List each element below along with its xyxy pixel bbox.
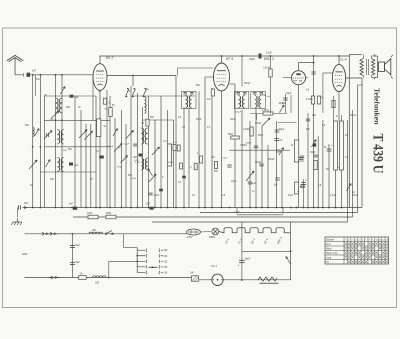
resistor R13 (tall) xyxy=(334,121,338,170)
wire IF link corner xyxy=(177,68,179,76)
svg-text:50pF: 50pF xyxy=(310,152,316,154)
wire vertical x137 xyxy=(137,93,139,208)
wire transformer core a xyxy=(365,59,367,75)
switch band S2 xyxy=(46,160,51,168)
svg-text:200: 200 xyxy=(92,229,97,232)
wire vertical x32 xyxy=(32,75,34,208)
svg-text:4700: 4700 xyxy=(135,162,141,164)
svg-text:5µF: 5µF xyxy=(76,261,81,264)
inductor antenna coil L1 xyxy=(33,128,35,137)
wire CL4 top xyxy=(338,56,340,64)
svg-text:500pF: 500pF xyxy=(244,83,251,85)
wire vertical x235 xyxy=(234,84,236,208)
wire vertical x86 xyxy=(85,124,87,208)
trimmer C17 xyxy=(262,118,270,126)
wire mains rail bottom y277 xyxy=(25,277,192,279)
wire vertical x276 xyxy=(276,121,278,208)
wire vertical x75 xyxy=(74,96,76,208)
wire EF9 grid left xyxy=(205,76,214,78)
capacitor 50uF C24 xyxy=(301,182,306,184)
svg-text:50µF: 50µF xyxy=(279,129,285,131)
capacitor 500pF on det line xyxy=(254,145,258,147)
svg-text:500pF: 500pF xyxy=(268,159,275,161)
switch row band selector xyxy=(126,96,128,98)
wire EF9 right xyxy=(230,83,236,85)
wire mid vertical x241 xyxy=(241,251,243,280)
wire EK2 left electrode down xyxy=(92,77,94,120)
svg-text:0,1µF: 0,1µF xyxy=(298,161,305,163)
wire vertical x199 xyxy=(198,91,200,207)
switch S10 xyxy=(286,257,291,265)
capacitor 3nF C28 xyxy=(18,205,20,209)
wire horizontal y96 xyxy=(45,95,97,97)
wire C24 down xyxy=(303,179,305,208)
wire vertical x313 xyxy=(313,56,315,208)
dial lamp assembly A507 xyxy=(187,229,201,235)
wire antenna bus xyxy=(30,74,93,76)
capacitor C8b xyxy=(69,163,73,166)
capacitor C30 xyxy=(149,207,153,210)
resistor R2b xyxy=(103,98,106,104)
junction dots on main bus xyxy=(32,207,34,209)
resistor R3 xyxy=(146,119,149,126)
svg-text:+: + xyxy=(297,190,299,194)
svg-text:CL 4: CL 4 xyxy=(340,58,347,62)
wire main bus y207 xyxy=(25,207,363,209)
tube EF 9 (IF amplifier) xyxy=(214,63,230,91)
svg-text:5MQ: 5MQ xyxy=(228,134,233,136)
wire vertical x91 xyxy=(90,124,92,208)
wire vertical x322 xyxy=(322,120,324,208)
wire EK2 cathode down xyxy=(99,90,101,207)
switch mains S9 xyxy=(105,233,107,235)
wire EBC3 right stub xyxy=(305,77,307,79)
resistor R det a xyxy=(199,156,202,163)
transformer IF1 can outline xyxy=(182,91,197,108)
svg-text:2nF: 2nF xyxy=(190,273,195,275)
wire transformer primary top xyxy=(362,55,364,59)
antenna xyxy=(7,55,24,60)
wire selector feed xyxy=(123,234,125,248)
svg-text:0,1µF: 0,1µF xyxy=(330,195,337,197)
capacitor on x313 xyxy=(311,71,315,73)
svg-text:0,5MQ: 0,5MQ xyxy=(240,145,247,147)
capacitor 1uF C3 xyxy=(70,95,74,98)
capacitor 1uF AF xyxy=(275,177,279,179)
voltage tap 150V xyxy=(137,260,147,263)
resistor R8 xyxy=(231,136,240,139)
table switch positions xyxy=(325,237,389,264)
transformer oscillator L4/L5 xyxy=(57,130,59,145)
wire vertical x142 xyxy=(142,107,144,208)
wire secondary bottom xyxy=(372,77,378,79)
trimmer osc low xyxy=(149,174,156,182)
wire R9 top xyxy=(270,56,272,69)
transformer IF2 can outline xyxy=(234,91,249,108)
wire lamp link xyxy=(200,231,211,234)
wire vertical x262 xyxy=(261,126,263,208)
wire EBC3 grid left xyxy=(283,77,292,79)
svg-text:1nF: 1nF xyxy=(252,183,257,185)
svg-text:1MQ: 1MQ xyxy=(87,212,92,215)
tube CL 4 (output pentode) xyxy=(332,64,345,91)
svg-text:60W: 60W xyxy=(22,252,28,256)
tube EK 2 (octode mixer) xyxy=(93,64,107,91)
svg-text:T 439 U: T 439 U xyxy=(370,134,386,174)
resistor R4 (tall) xyxy=(167,144,171,166)
switch S6 xyxy=(148,169,153,177)
svg-text:+: + xyxy=(305,178,307,182)
svg-text:1µF: 1µF xyxy=(74,164,79,167)
transformer L6/L7 xyxy=(57,158,59,172)
resistor 0.1M R9 xyxy=(269,69,272,77)
wire drop x176 xyxy=(175,76,177,208)
capacitor C6 xyxy=(99,156,104,159)
svg-text:2nF: 2nF xyxy=(211,157,216,159)
wire EF9 anode to top rail xyxy=(221,56,223,63)
capacitor 10uF xyxy=(283,97,287,99)
svg-text:1nF: 1nF xyxy=(312,115,317,117)
svg-text:2nF: 2nF xyxy=(69,203,74,206)
resistor R12 xyxy=(314,161,317,170)
svg-text:10µF: 10µF xyxy=(286,93,292,95)
switch S3b xyxy=(113,129,118,137)
wire vertical x121 xyxy=(121,110,123,208)
svg-text:5nF: 5nF xyxy=(207,99,212,101)
capacitor C22 xyxy=(248,181,252,183)
capacitor padding C5 xyxy=(46,133,48,137)
wire vertical x189 xyxy=(188,108,190,208)
svg-text:Lang: Lang xyxy=(326,257,332,259)
inductor osc L10a xyxy=(145,97,147,107)
wire horizontal y120 xyxy=(45,119,111,121)
lamp dial M504 xyxy=(212,228,219,235)
svg-text:5nF: 5nF xyxy=(306,129,311,131)
wire right rail x357 xyxy=(357,85,359,213)
svg-text:80pF: 80pF xyxy=(250,58,256,61)
svg-text:5µF: 5µF xyxy=(76,244,81,247)
wire x242 from top rail xyxy=(241,56,243,87)
svg-text:20µF: 20µF xyxy=(231,181,237,183)
svg-text:10nF: 10nF xyxy=(154,194,160,197)
ground chassis xyxy=(11,218,21,225)
wire horizontal y146 xyxy=(45,146,111,148)
wire AVC branch y122 xyxy=(278,122,297,124)
inductor mains filter 200 bottom xyxy=(93,276,107,278)
svg-text:30µF: 30µF xyxy=(245,258,251,261)
transformer IF3 can outline xyxy=(251,91,265,108)
svg-text:Mittel: Mittel xyxy=(326,247,332,250)
svg-text:1µF: 1µF xyxy=(274,185,279,187)
wire secondary top stub xyxy=(371,56,373,59)
wire top rail to output xyxy=(297,55,351,57)
wire right rail x352 xyxy=(352,110,354,217)
wire vertical x115 xyxy=(114,118,116,208)
wire vertical x161 xyxy=(160,96,162,208)
wire mid y251 xyxy=(242,250,291,252)
resistor 1.2k xyxy=(177,145,180,151)
capacitor left a xyxy=(300,155,304,157)
wire EBC3 up xyxy=(298,63,300,71)
resistor R det b xyxy=(214,162,217,169)
capacitor 500pF C21 xyxy=(259,163,263,165)
wire top HT rail mid xyxy=(262,55,297,57)
trimmer arrow C4 xyxy=(44,131,52,140)
capacitor C10c xyxy=(139,154,143,157)
inductor mains filter 200 top xyxy=(89,232,103,234)
trimmer C11 xyxy=(152,147,160,155)
transformer IF3 L17/L18 xyxy=(255,96,257,109)
svg-text:Mittel m.Sp.: Mittel m.Sp. xyxy=(326,252,338,255)
capacitor 50uF C18 xyxy=(275,129,280,131)
resistor heater dropper (with core) xyxy=(258,277,277,281)
wire EK2 grid2 right y75 xyxy=(107,75,176,77)
resistor 0.3M R10 (tall) xyxy=(294,140,298,162)
switch detector xyxy=(279,148,284,156)
trimmer L5 a xyxy=(79,130,87,139)
wire IF link y68 xyxy=(178,67,214,69)
wire detector output y150 xyxy=(229,149,290,151)
wire vertical x44 xyxy=(44,96,46,208)
svg-text:200: 200 xyxy=(95,282,100,285)
fuse 1A F1 xyxy=(79,276,87,280)
wire CL4 cathode down xyxy=(338,92,340,121)
svg-text:Ω: Ω xyxy=(336,116,338,118)
wire vertical x184 xyxy=(183,108,185,208)
connector chassis left xyxy=(23,206,27,209)
svg-text:20pF: 20pF xyxy=(230,119,236,121)
svg-text:0,1µF: 0,1µF xyxy=(124,144,130,146)
wire vertical x126 xyxy=(125,124,127,208)
capacitor left b electrolytic xyxy=(300,184,305,186)
resistor R14 (tall) xyxy=(340,121,344,170)
wire bus y217 xyxy=(73,216,353,218)
capacitor 50pF C26 xyxy=(314,154,318,156)
capacitor IF2 trim b xyxy=(243,92,247,94)
trimmer 100pF xyxy=(114,144,122,152)
svg-text:0,1MQ: 0,1MQ xyxy=(243,129,250,131)
wire EBC3 cathode down xyxy=(298,85,300,208)
transformer IF2 L15/L16 xyxy=(238,96,240,109)
svg-text:EK 2: EK 2 xyxy=(106,56,113,60)
capacitor C13 xyxy=(159,189,163,192)
tube CF 1 (rectifier, top view) xyxy=(212,274,223,285)
svg-text:4700: 4700 xyxy=(117,167,123,169)
capacitor C14 xyxy=(182,176,186,179)
volume potentiometer arrow xyxy=(246,171,254,181)
resistor 47k xyxy=(194,163,197,170)
wire vertical x81 xyxy=(80,110,82,208)
voltage tap 110V xyxy=(137,271,147,274)
svg-text:100pF: 100pF xyxy=(107,146,114,148)
resistor EF9 grid xyxy=(211,89,214,96)
table X marks xyxy=(344,242,347,245)
switch wave band S1 xyxy=(61,87,66,95)
capacitor mains C31 (hatched box) xyxy=(192,276,199,281)
wire drop x133 xyxy=(132,76,134,87)
svg-text:500pF: 500pF xyxy=(255,162,262,164)
wire mid vertical x72 xyxy=(72,234,74,278)
wire 10uF stub xyxy=(285,94,287,113)
wire heater end xyxy=(287,232,291,234)
wire bus up to output xyxy=(361,78,363,208)
capacitor 0.1uF C10b xyxy=(133,143,137,145)
resistor CL4 cathode xyxy=(332,101,335,108)
transformer osc padder L12b xyxy=(141,158,143,170)
svg-text:5nF: 5nF xyxy=(36,79,41,81)
resistor 0.5M CL4 grid xyxy=(311,96,314,104)
wire vertical x167 xyxy=(167,110,169,208)
wire to chassis ground xyxy=(16,208,18,218)
wire vertical x282 xyxy=(281,151,283,208)
svg-text:1µF: 1µF xyxy=(75,96,80,99)
wire x241 to bus xyxy=(241,222,243,251)
svg-text:50pF: 50pF xyxy=(258,135,264,137)
svg-text:1Q: 1Q xyxy=(182,127,185,129)
transformer input L2/L3 xyxy=(56,98,59,113)
svg-text:500pF: 500pF xyxy=(235,112,242,114)
wire CL4 cathode res xyxy=(333,96,335,121)
wire vertical x250 xyxy=(249,121,251,208)
wire AVC line y113 xyxy=(250,113,287,115)
wire vertical x308 xyxy=(307,113,309,208)
transformer output T1 primary xyxy=(360,59,363,76)
resistor 1M R15 xyxy=(88,215,98,219)
wire selector drop xyxy=(108,261,110,277)
transformer output T1 secondary xyxy=(372,59,375,76)
svg-text:3nF: 3nF xyxy=(24,202,29,205)
capacitor IF3 trim b xyxy=(260,92,264,94)
wire antenna lead-in xyxy=(14,58,16,75)
svg-text:M504: M504 xyxy=(209,236,216,239)
wire selector to rail B xyxy=(109,260,137,262)
wire right drop mains x290 xyxy=(290,233,292,280)
svg-text:50mA: 50mA xyxy=(350,114,356,117)
capacitor IF1 trim a xyxy=(183,92,187,94)
wire vertical x40 xyxy=(39,75,41,208)
wire top HT rail left of 80pF xyxy=(100,55,259,57)
wire bus y212 xyxy=(200,212,358,214)
connector antenna input xyxy=(15,73,24,76)
wire vertical x212 xyxy=(211,88,213,208)
svg-text:1nF: 1nF xyxy=(32,69,37,72)
resistor 5M R16 xyxy=(106,215,116,219)
wire to output transformer primary xyxy=(349,54,362,56)
trimmer L5 b xyxy=(85,131,93,140)
wire selector feed horizontal xyxy=(124,247,138,249)
svg-text:50pF: 50pF xyxy=(352,195,358,197)
svg-text:0,1µF: 0,1µF xyxy=(266,53,273,55)
wire vertical x173 xyxy=(173,120,175,208)
capacitor marker xyxy=(313,143,316,146)
wire bus dip left xyxy=(236,208,238,214)
capacitor 2nF C19 xyxy=(274,138,278,140)
capacitor C29 xyxy=(73,207,78,210)
inductor osc L10b xyxy=(145,104,147,114)
transformer osc L11/L12 xyxy=(141,128,144,144)
transformer IF1 L13/L14 xyxy=(185,96,187,109)
resistor 0.1M R7 xyxy=(250,127,253,136)
capacitor 5nF C20 xyxy=(276,149,280,151)
svg-text:Telefunken: Telefunken xyxy=(372,88,381,125)
wire right rail x347 xyxy=(347,120,349,222)
trimmer padder a xyxy=(121,156,128,164)
wire right rail drop x349 xyxy=(348,55,350,208)
switch arrow S4 xyxy=(29,160,37,169)
resistor CL4 grid b xyxy=(317,96,320,104)
wire transformer primary bottom xyxy=(362,76,364,79)
wire vertical x55 xyxy=(55,75,57,208)
wire secondary bottom stub xyxy=(371,76,373,78)
capacitor 80pF coupling xyxy=(258,54,261,59)
wire vertical x268 xyxy=(267,145,269,208)
connector mains plug top b xyxy=(49,232,52,235)
heater chain of tube filaments xyxy=(219,228,289,233)
wire x290 to bus xyxy=(290,222,292,233)
wire vertical x35 short xyxy=(35,75,37,96)
connector mains plug bottom xyxy=(50,276,53,279)
svg-text:20µF: 20µF xyxy=(288,195,294,197)
capacitor 0.1uF det xyxy=(227,164,231,166)
capacitor 5uF C33 xyxy=(70,261,75,263)
resistor 0.5M R6 xyxy=(263,112,273,115)
wire CL4 grid left xyxy=(323,72,333,74)
switch anode circuit xyxy=(347,184,352,192)
svg-text:0,1MQ: 0,1MQ xyxy=(306,99,313,101)
wire bus y222 xyxy=(152,221,348,223)
connector mains plug top a xyxy=(41,232,44,235)
capacitor 10nF osc xyxy=(148,192,152,194)
wire R14 down xyxy=(341,170,343,208)
svg-text:2nF: 2nF xyxy=(146,203,151,206)
resistor R11 xyxy=(295,182,299,194)
switch L1 tap xyxy=(35,129,40,137)
capacitor 30uF C34 electrolytic xyxy=(239,259,245,261)
wire R13 down xyxy=(335,170,337,208)
wire R14 up xyxy=(341,115,343,121)
capacitor 5uF C32 xyxy=(70,244,75,246)
wire grid drop xyxy=(322,73,324,113)
svg-text:Ω: Ω xyxy=(109,102,111,105)
svg-text:5MQ: 5MQ xyxy=(106,212,111,215)
wire selector left vertical xyxy=(136,248,138,273)
wire horizontal y172 xyxy=(40,171,96,173)
wire horizontal y96 osc xyxy=(133,95,195,97)
svg-text:0,1MQ: 0,1MQ xyxy=(263,66,270,69)
wire R9 bottom xyxy=(270,77,272,114)
wire vertical x329 xyxy=(328,144,330,208)
svg-text:TA: TA xyxy=(326,261,329,264)
wire EBC3 to x313 xyxy=(299,62,314,64)
wire stub xyxy=(256,114,258,121)
svg-text:2nF: 2nF xyxy=(279,140,284,142)
svg-text:A 507: A 507 xyxy=(187,236,194,239)
wire horizontal y120 osc xyxy=(142,119,174,121)
svg-text:0,1µF: 0,1µF xyxy=(222,158,228,160)
svg-text:5nF: 5nF xyxy=(282,103,287,105)
wire secondary top xyxy=(372,55,378,57)
resistor osc grid xyxy=(109,108,112,117)
trimmer arrow below L2 xyxy=(51,111,59,119)
capacitor antenna coupling 1nF xyxy=(27,73,31,77)
capacitor 0.1uF C23 xyxy=(299,157,304,159)
wire CL4 anode to output transformer xyxy=(346,77,362,79)
wire vertical x205 xyxy=(204,77,206,208)
resistor R5 xyxy=(173,145,176,151)
resistor cathode EK2 R2 (tall) xyxy=(97,119,101,137)
wire EF9 cathode down xyxy=(221,91,223,208)
svg-text:EF 9: EF 9 xyxy=(226,57,233,61)
